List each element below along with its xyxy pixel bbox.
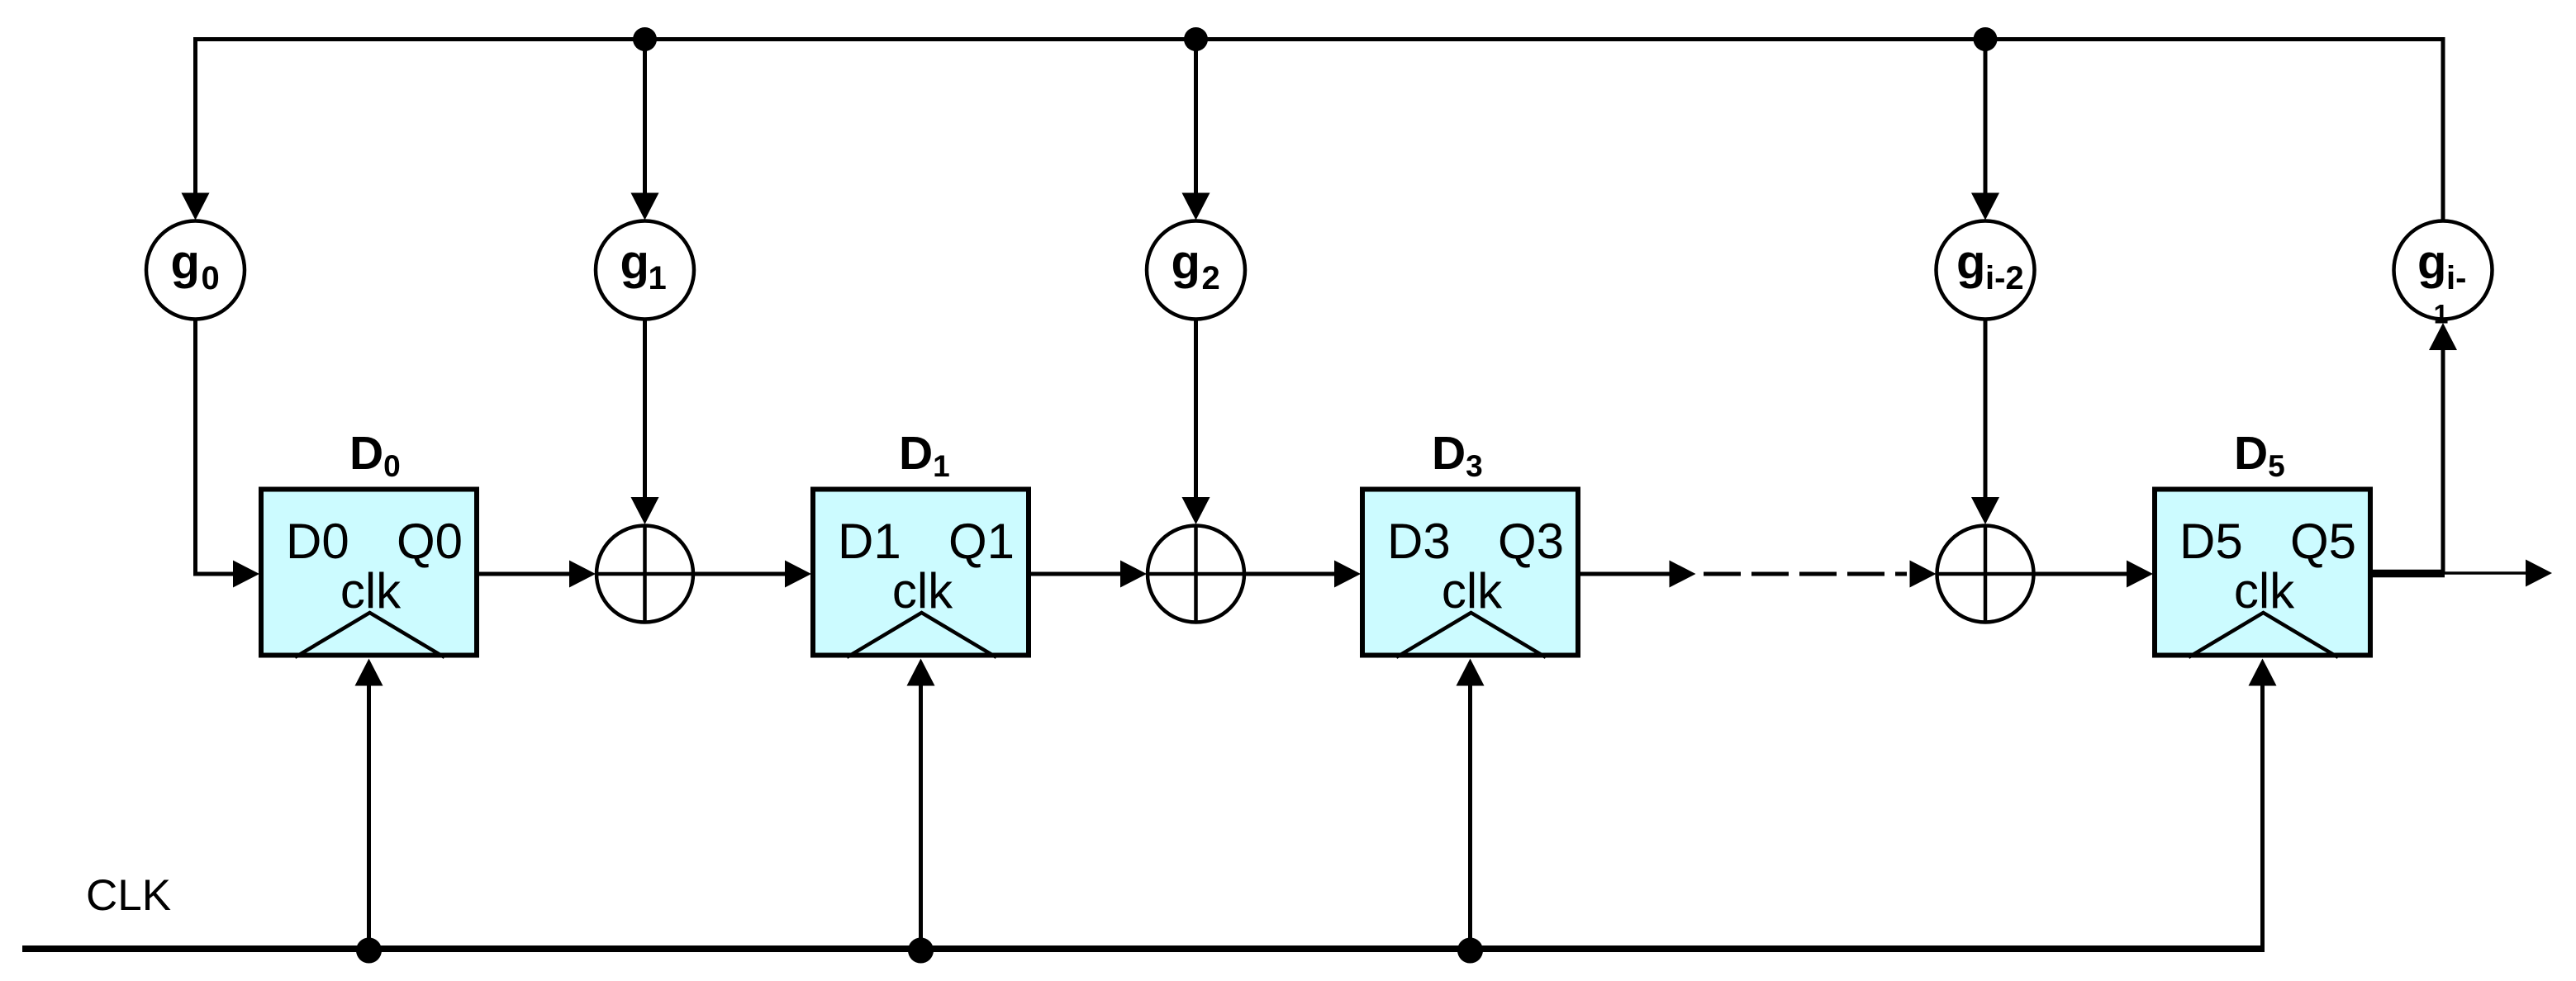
svg-text:2: 2	[1202, 260, 1220, 296]
svg-text:0: 0	[202, 260, 220, 296]
svg-text:g: g	[171, 235, 200, 289]
svg-text:CLK: CLK	[86, 871, 171, 920]
svg-text:clk: clk	[2234, 563, 2295, 618]
svg-text:D1: D1	[838, 514, 901, 569]
svg-text:i-: i-	[2446, 260, 2466, 296]
svg-text:g: g	[1172, 235, 1200, 289]
svg-text:D0: D0	[286, 514, 349, 569]
svg-text:D3: D3	[1387, 514, 1451, 569]
svg-text:1: 1	[649, 260, 667, 296]
svg-text:g: g	[2417, 235, 2446, 289]
svg-text:clk: clk	[340, 563, 402, 618]
svg-text:Q3: Q3	[1498, 514, 1564, 569]
svg-text:g: g	[1956, 235, 1985, 289]
svg-text:1: 1	[2434, 300, 2449, 329]
svg-text:i-2: i-2	[1985, 260, 2024, 296]
svg-text:Q1: Q1	[948, 514, 1015, 569]
svg-text:clk: clk	[1442, 563, 1503, 618]
svg-text:Q5: Q5	[2290, 514, 2356, 569]
svg-text:Q0: Q0	[397, 514, 463, 569]
svg-text:D5: D5	[2179, 514, 2243, 569]
svg-text:g: g	[620, 235, 649, 289]
svg-text:clk: clk	[892, 563, 953, 618]
